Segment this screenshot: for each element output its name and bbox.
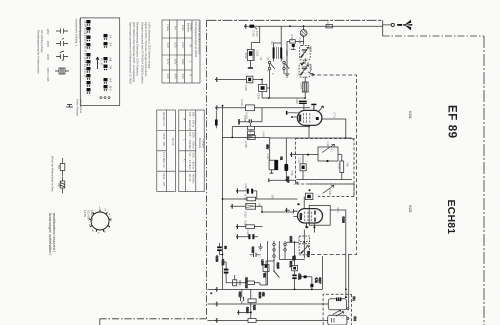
svg-text:5,9 ... 6,4 MHz: 5,9 ... 6,4 MHz	[188, 153, 192, 171]
wire C121 leads	[250, 254, 261, 256]
svg-text:4,5V: 4,5V	[181, 74, 185, 80]
svg-text:R116: R116	[307, 251, 311, 258]
svg-text:ECH81: ECH81	[445, 200, 457, 235]
legend resistor 1W	[60, 158, 65, 176]
svg-text:K: K	[183, 159, 187, 161]
node screen junction	[285, 179, 287, 181]
switch lever diagonal	[273, 270, 279, 277]
resistor R113 hatched	[246, 203, 256, 209]
svg-text:R124: R124	[258, 292, 262, 299]
capacitor C105 plates black	[249, 119, 251, 123]
wire C117 leads	[241, 289, 243, 304]
capacitor C110 black	[299, 101, 307, 102]
svg-text:400V: 400V	[46, 54, 50, 60]
wire R113 leads	[232, 206, 262, 212]
svg-text:2W: 2W	[57, 183, 61, 187]
svg-text:M: M	[266, 58, 270, 60]
trimmer C156 arrow	[301, 246, 309, 254]
resistor R122 series	[247, 281, 254, 285]
svg-text:L104: L104	[249, 133, 253, 139]
svg-text:7-8: 7-8	[109, 65, 113, 69]
svg-text:6,8V: 6,8V	[181, 59, 185, 65]
svg-text:0,4V: 0,4V	[262, 132, 266, 138]
svg-text:C149: C149	[328, 189, 332, 196]
wire switch feed verticals bottom cluster	[279, 241, 294, 259]
svg-text:C110: C110	[295, 98, 299, 105]
chassis border bottom-left dash-dot vertical	[206, 20, 208, 318]
svg-text:C123: C123	[289, 236, 293, 243]
wire HT feed y137.4	[223, 136, 270, 138]
capacitor C109 black small	[292, 44, 295, 47]
svg-text:5-8: 5-8	[109, 58, 113, 62]
trimmer C107 arrow	[301, 47, 309, 58]
wire R122 row	[232, 283, 260, 285]
wire osc bottom joins	[260, 284, 268, 286]
wire triode anode loop	[309, 206, 330, 226]
capacitor C111 boxed electrolytic	[269, 160, 278, 170]
IF core arrows	[333, 310, 341, 315]
capacitor C125 black tick	[304, 275, 307, 278]
wire C112 leads	[302, 155, 304, 180]
wire C115 leads	[237, 236, 258, 238]
capacitor C151 black	[292, 274, 296, 276]
terminal HT left	[215, 302, 217, 307]
svg-text:9-0: 9-0	[109, 79, 113, 83]
svg-text:ZF / IF: ZF / IF	[188, 174, 192, 182]
svg-text:Betriebsspannung (Nennwerte: Betriebsspannung (Nennwerte ±15% Toleran…	[136, 22, 140, 76]
svg-text:C7 V: C7 V	[333, 113, 337, 119]
switch contact combs middle column	[104, 34, 108, 91]
svg-text:M: M	[183, 118, 187, 120]
wire switch cluster verticals	[268, 241, 286, 285]
svg-text:C103: C103	[244, 85, 248, 92]
node C120	[222, 254, 224, 256]
svg-text:R113: R113	[244, 212, 248, 219]
svg-text:R112: R112	[244, 194, 248, 201]
terminal T y276.8	[300, 275, 301, 279]
svg-text:5,6k: 5,6k	[253, 305, 257, 311]
switch detail box frame	[80, 18, 119, 106]
svg-text:Werte der Widerstände in Ohm: Werte der Widerstände in Ohm	[51, 156, 55, 192]
svg-text:98 V: 98 V	[336, 208, 340, 214]
node bus-C152	[222, 261, 224, 263]
terminal T left C103	[215, 77, 217, 82]
resistor R101 series	[326, 25, 332, 28]
svg-text:1-0: 1-0	[109, 35, 113, 39]
wire y226.6	[236, 226, 263, 228]
node y199	[222, 198, 224, 200]
terminal y226	[236, 224, 237, 229]
svg-text:Osz: Osz	[299, 214, 303, 219]
svg-text:M: M	[281, 58, 285, 60]
svg-text:C107: C107	[309, 46, 313, 53]
capacitor C48 electrolytic black	[284, 164, 288, 171]
trimmer box C156 dashed	[299, 244, 310, 255]
tube socket diagram	[89, 210, 112, 232]
wire antenna drop	[383, 20, 392, 36]
wire AVC bus y289.4	[208, 288, 323, 290]
svg-text:C117: C117	[238, 292, 242, 299]
svg-text:250V: 250V	[46, 41, 50, 47]
svg-text:f min: f min	[181, 25, 185, 31]
switch contact S1a	[268, 61, 270, 63]
wire anode right	[322, 119, 346, 138]
svg-text:R114: R114	[244, 221, 248, 228]
trimmer box C108 dashed	[299, 63, 310, 77]
svg-text:Fi 2: Fi 2	[353, 317, 357, 322]
wire tube right anode	[330, 210, 346, 289]
svg-text:Voltages measured with VTVM (: Voltages measured with VTVM (Rö4 10MΩ/V)…	[141, 22, 145, 84]
svg-text:6,3V: 6,3V	[181, 43, 185, 49]
svg-text:6,2V: 6,2V	[174, 43, 178, 49]
svg-text:R117: R117	[318, 278, 322, 285]
wire screen bus y180.3	[269, 179, 296, 181]
transformer T101 core	[277, 47, 279, 59]
inductor L104 boxed	[248, 126, 255, 130]
svg-text:±15% tolerance) at 252V ba: ±15% tolerance) at 252V battery voltage	[148, 22, 152, 69]
wire C48 vertical	[285, 138, 287, 180]
node bus top	[222, 105, 224, 107]
terminal heater left	[215, 318, 217, 323]
resistor R114 series	[246, 225, 255, 229]
tube V101 electrodes	[299, 115, 301, 122]
capacitor C104 boxed	[259, 85, 267, 92]
rotor tick between boxes	[301, 62, 304, 65]
capacitor C126 black on left edge	[215, 120, 218, 126]
svg-text:R122 1M: R122 1M	[245, 278, 249, 289]
switch contact S2b	[273, 249, 275, 251]
svg-text:4,0V: 4,0V	[166, 74, 170, 80]
node IF junction	[307, 154, 309, 156]
wire R102 leads	[287, 40, 304, 42]
svg-text:1510: 1510	[244, 53, 248, 59]
switch contact column numbers	[84, 21, 88, 78]
capacitor C117 plates	[241, 297, 244, 301]
wire grid2 y199	[223, 198, 248, 200]
svg-text:V101: V101	[408, 111, 412, 119]
wire AVC riser x322.6	[322, 256, 324, 289]
sub box dashed C149	[309, 184, 354, 197]
IF coil 1 core blob	[336, 298, 341, 302]
svg-text:Fi 1: Fi 1	[352, 297, 356, 302]
capacitor C112 boxed	[300, 164, 306, 171]
svg-text:C120: C120	[215, 256, 219, 263]
svg-text:Schwingspannungen an Rö101: Schwingspannungen an Rö101	[194, 22, 198, 59]
svg-text:Betriebsspannung der Kondensat: Betriebsspannung der Kondensatoren	[37, 30, 41, 74]
node R118 mid	[250, 311, 252, 313]
node antenna terminal	[391, 23, 394, 26]
wire osc row y259	[279, 258, 305, 260]
wire ground stub	[260, 244, 262, 248]
resistor R103 series	[246, 105, 255, 111]
svg-text:Spannungen gemessen mit Röhren: Spannungen gemessen mit Röhrenvoltmeter …	[129, 22, 133, 85]
wire L106 top link	[266, 259, 274, 261]
capacitor C120 black left bus	[217, 246, 222, 248]
resistor R121 boxed	[292, 265, 298, 270]
wire IF y154.6	[292, 154, 319, 156]
wire antenna link bar	[397, 24, 402, 26]
wire T101 top leads	[274, 26, 282, 47]
resistor R112 series	[247, 197, 256, 201]
svg-text:1W: 1W	[57, 165, 61, 169]
svg-text:150 ... 320 kHz: 150 ... 320 kHz	[188, 132, 192, 150]
wire C111 bottom stub	[270, 170, 274, 173]
wire y276.8	[301, 277, 312, 284]
svg-text:C148: C148	[326, 142, 330, 149]
svg-text:f max: f max	[166, 25, 170, 32]
switch contact S1d	[283, 67, 285, 69]
svg-text:Range: Range	[190, 23, 194, 31]
oscillator coil L103 boxed	[302, 82, 308, 92]
svg-text:ECH 81: ECH 81	[86, 210, 90, 220]
wire C116 lead	[311, 287, 313, 289]
switch contact labels middle	[109, 35, 113, 92]
legend resistor 2W	[60, 177, 65, 194]
switch contact S2a	[273, 243, 275, 245]
node grid link	[261, 211, 263, 213]
svg-text:6,7V: 6,7V	[166, 59, 170, 65]
IF coil 2 box	[328, 315, 347, 325]
resistor R119 series in heater bus	[248, 319, 256, 323]
svg-text:41k: 41k	[261, 292, 265, 297]
IF can terminals	[347, 308, 349, 310]
IF filter box dashed	[296, 139, 354, 185]
switch lever S1 diagonal	[270, 64, 289, 69]
wire R121 leads	[294, 259, 296, 274]
svg-text:C151: C151	[298, 274, 302, 281]
svg-text:M: M	[189, 45, 193, 47]
trimmer C108 plates	[302, 67, 307, 70]
svg-text:C105: C105	[243, 116, 247, 123]
svg-text:4,0V: 4,0V	[174, 74, 178, 80]
wire HT line y138	[270, 138, 354, 140]
tube V102 ECH81 envelope	[298, 209, 323, 223]
wire L103 bottom	[304, 92, 306, 98]
svg-text:V102: V102	[408, 205, 412, 213]
IF coil 1 box	[328, 299, 346, 310]
switch contact S2c	[273, 255, 275, 257]
switch contact combs left column	[87, 20, 91, 94]
capacitor C113 boxed	[305, 193, 313, 199]
svg-text:Ranges: Ranges	[201, 139, 205, 149]
svg-text:4700: 4700	[255, 31, 259, 37]
big dashed box oscillator right	[310, 75, 357, 254]
svg-text:C104: C104	[257, 93, 261, 100]
terminal T feed	[244, 24, 246, 29]
table ranges frame	[179, 110, 204, 192]
svg-text:Änderungen vorbehalten !: Änderungen vorbehalten !	[48, 213, 52, 255]
svg-text:R121: R121	[289, 261, 293, 268]
resistor R102	[290, 40, 296, 43]
capacitor C115 black	[248, 234, 250, 239]
terminal T IF in	[290, 152, 292, 157]
wire tube V102 pins left	[294, 209, 298, 217]
wire left bus vertical	[222, 106, 224, 290]
terminal tick y180.3	[268, 179, 270, 183]
svg-text:C108: C108	[309, 64, 313, 71]
svg-text:DC working voltage: DC working voltage	[40, 30, 44, 53]
svg-text:K L M: K L M	[100, 58, 104, 65]
svg-text:510 ... 1630 kHz: 510 ... 1630 kHz	[188, 112, 192, 132]
svg-text:R101: R101	[326, 21, 330, 28]
svg-text:R105: R105	[244, 142, 248, 149]
svg-text:6,9V: 6,9V	[174, 59, 178, 65]
tube socket pin numbers	[89, 206, 112, 236]
svg-text:85V: 85V	[266, 145, 270, 150]
wire C152 leads	[225, 262, 227, 283]
svg-text:C48: C48	[290, 171, 294, 176]
node anode-IF junction	[345, 137, 347, 139]
wire tube pins top	[304, 104, 309, 138]
tube V101 EF89 envelope	[297, 110, 322, 125]
wire loop to R	[338, 155, 342, 161]
svg-text:WR: WR	[263, 273, 267, 277]
switch contact S2e	[284, 249, 286, 251]
svg-text:signal at 220V~ 50c/s line: signal at 220V~ 50c/s line voltage (rate…	[144, 22, 148, 77]
svg-text:wire trimmer: wire trimmer	[79, 99, 83, 113]
wire antenna lower feed	[244, 25, 383, 27]
node C103-C104	[261, 79, 263, 81]
terminal cathode T	[313, 105, 315, 110]
svg-text:460 kHz / IC: 460 kHz / IC	[162, 112, 166, 126]
capacitor C103 boxed	[247, 76, 253, 83]
terminal T left y108.3	[215, 106, 217, 111]
svg-text:C420 - 780: C420 - 780	[162, 133, 166, 146]
svg-text:500V 0,7/25: 500V 0,7/25	[46, 68, 50, 83]
terminal y236	[236, 234, 237, 239]
switch pointer arrow K	[96, 57, 99, 69]
wire tube bottom stubs	[306, 223, 314, 233]
wire bus y96	[262, 97, 305, 99]
wire C151 lead	[294, 279, 296, 289]
svg-text:Bereiche: Bereiche	[198, 138, 202, 149]
IF resonant loop	[318, 147, 338, 161]
chassis border top dash-dot	[383, 35, 485, 37]
terminal y206	[231, 204, 233, 209]
wire osc feed y242.3	[286, 241, 299, 243]
wire heater bus y318.9	[208, 319, 328, 321]
terminal AVC left	[215, 287, 217, 292]
wire tuning line	[304, 26, 306, 82]
wire C114 leads	[237, 191, 256, 199]
wire triode grid vertical	[303, 197, 305, 209]
transformer T101 primary	[273, 47, 275, 58]
svg-text:11-0: 11-0	[109, 86, 113, 92]
node bus96 junction	[304, 97, 306, 99]
svg-text:50k: 50k	[346, 163, 350, 168]
wire C104 leads	[262, 80, 270, 99]
wire box bottom bus	[297, 179, 353, 181]
svg-text:C124: C124	[342, 217, 346, 224]
tube V102 electrodes	[300, 213, 302, 220]
wire L106 leads	[265, 261, 267, 285]
svg-text:EF 89: EF 89	[83, 210, 87, 217]
svg-text:30V: 30V	[271, 195, 275, 200]
antenna symbol	[403, 20, 412, 31]
coil L106 boxed	[263, 265, 269, 272]
wire grid feed y108.3	[217, 108, 310, 122]
wire screen chain vertical	[269, 137, 271, 160]
capacitor C101 feedthrough black	[250, 25, 255, 28]
wire osc grid link	[262, 211, 294, 213]
node loop bottom	[326, 160, 328, 162]
wire C103 leads with terminal	[218, 79, 263, 81]
node AVC junctions	[294, 289, 296, 291]
switch bottom contacts	[100, 97, 102, 99]
wire chain	[226, 280, 240, 286]
wire C120 leads	[220, 243, 223, 255]
corner arrow IF box	[294, 182, 298, 185]
svg-text:EABC 80: EABC 80	[90, 210, 94, 221]
resistor R105 boxed hatched	[248, 135, 256, 139]
wire chain vertical	[249, 123, 252, 135]
svg-text:L105: L105	[285, 50, 289, 56]
svg-text:7.8: 7.8	[259, 57, 263, 61]
terminal T V102	[285, 208, 287, 213]
svg-text:3-0: 3-0	[109, 43, 113, 47]
legend capacitor 125V	[56, 29, 68, 34]
svg-text:460 kHz: 460 kHz	[192, 174, 196, 184]
svg-text:C112: C112	[298, 158, 302, 165]
wire L101 bottom lead	[250, 61, 252, 68]
svg-text:EF 89: EF 89	[446, 105, 458, 139]
capacitor C121 plates	[254, 253, 257, 258]
terminal T y190.9	[236, 188, 237, 193]
svg-text:L106: L106	[261, 260, 265, 266]
node osc	[303, 241, 305, 243]
chassis border right dash-dot	[483, 36, 485, 325]
node y137	[231, 137, 233, 139]
legend capacitor 500V electrolytic	[55, 68, 69, 74]
trimmer C148 arrow	[322, 144, 334, 152]
svg-text:C430 - 720: C430 - 720	[162, 173, 166, 186]
wire IF can risers	[346, 254, 349, 307]
node antenna line junctions	[289, 25, 291, 27]
capacitor C116 black square	[310, 284, 313, 287]
wire R112 right	[256, 198, 298, 200]
trimmer box C155 dashed	[299, 236, 310, 242]
svg-text:C111: C111	[266, 154, 270, 160]
node risers	[345, 289, 347, 291]
wire R118 branch vertical	[250, 289, 252, 320]
ground transformer	[285, 41, 290, 77]
wire C109 stub	[291, 47, 296, 50]
svg-text:f m: f m	[174, 26, 178, 30]
wire grid stub y128.4	[232, 127, 309, 138]
chassis border bottom-left dash-dot horizontal	[100, 319, 207, 325]
transformer T101 secondary	[280, 47, 282, 58]
trimmer C149 arrow	[323, 185, 334, 193]
trimmer arrow tube	[318, 106, 323, 112]
table IF frame	[157, 110, 176, 192]
svg-text:C152: C152	[221, 259, 225, 266]
svg-text:4,7: 4,7	[330, 149, 334, 153]
svg-text:R118: R118	[246, 307, 250, 314]
capacitor C114 black	[247, 189, 249, 194]
svg-text:C2: C2	[280, 157, 284, 161]
terminal plate C105	[238, 119, 239, 124]
tuning capacitor C106 rotor	[300, 30, 307, 37]
resistor R118 boxed series	[248, 299, 256, 303]
svg-text:R103: R103	[240, 100, 244, 107]
svg-text:C115: C115	[246, 230, 250, 237]
svg-text:125V: 125V	[46, 29, 50, 35]
svg-text:R107: R107	[286, 177, 290, 184]
svg-text:DK: DK	[258, 203, 262, 207]
wire R111 bottom	[341, 173, 343, 180]
svg-text:4,2V: 4,2V	[166, 43, 170, 49]
IF can outer dashed	[323, 294, 352, 325]
